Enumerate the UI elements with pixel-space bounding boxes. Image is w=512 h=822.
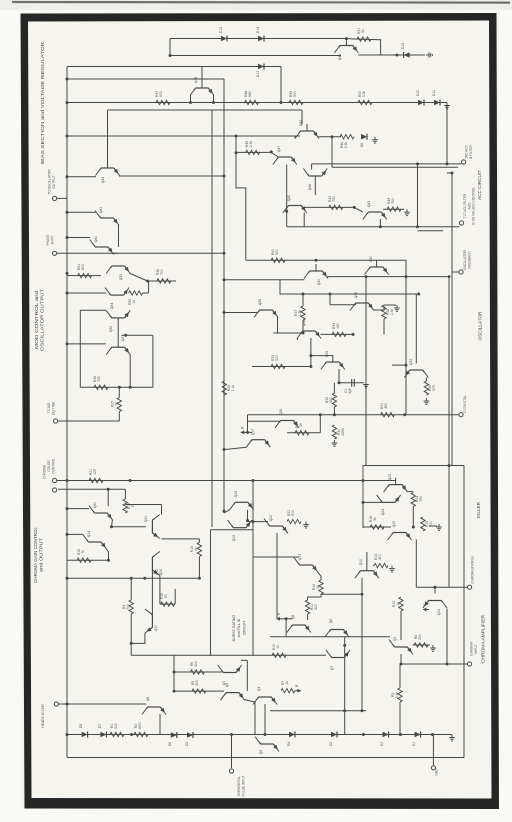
svg-text:1k: 1k bbox=[396, 602, 400, 606]
transistor Q12 bbox=[228, 520, 252, 541]
resistor R26 bbox=[93, 376, 108, 390]
wire Q21 collector up bbox=[161, 505, 163, 515]
svg-text:700: 700 bbox=[126, 604, 130, 610]
resistor R51 bbox=[357, 28, 371, 42]
wire x447 drop bbox=[446, 103, 448, 164]
wire R32 bottom bbox=[333, 407, 335, 415]
svg-text:Q28: Q28 bbox=[279, 409, 283, 416]
transistor Q33m bbox=[106, 266, 130, 280]
terminal HORIZONTAL PULSE bbox=[229, 769, 233, 773]
wire killer x363 lower bbox=[362, 502, 364, 528]
svg-text:5k: 5k bbox=[299, 423, 303, 427]
wire x253 drop bbox=[252, 481, 254, 558]
junction rail y237 bbox=[66, 236, 69, 239]
scan shading top bbox=[0, 0, 512, 10]
transistor Q8 bbox=[287, 615, 311, 633]
wire y55 right segment bbox=[358, 54, 425, 56]
transistor Q6b bbox=[142, 697, 166, 715]
ground below R39 bbox=[424, 398, 430, 404]
svg-text:3pF: 3pF bbox=[348, 388, 352, 394]
capacitor C1 bbox=[344, 379, 354, 394]
svg-text:D8: D8 bbox=[79, 724, 83, 728]
wire R5 line bbox=[174, 690, 224, 692]
wire Q4 down bbox=[264, 704, 266, 735]
wire x332 drop bbox=[331, 137, 333, 168]
svg-text:Q7: Q7 bbox=[330, 666, 334, 671]
wire x449 drop to killer box bbox=[448, 277, 450, 466]
junction x447 y163 bbox=[446, 162, 449, 165]
junction x236 bus136 bbox=[235, 135, 238, 138]
left label HEADS M CHR bbox=[41, 704, 45, 728]
wire Q50 emitters y276 bbox=[328, 276, 448, 278]
resistor R45 bbox=[245, 140, 260, 154]
junction rail y508 bbox=[66, 507, 69, 510]
resistor R6 bbox=[190, 661, 204, 674]
svg-text:D15: D15 bbox=[401, 43, 405, 49]
transistor Q46 bbox=[303, 169, 327, 191]
transistor Q37 bbox=[106, 335, 130, 355]
transistor Q33 bbox=[404, 359, 428, 378]
wire R11 to Q8 bbox=[307, 614, 309, 620]
resistor R22 bbox=[287, 510, 301, 524]
ground after C1 bbox=[363, 382, 369, 388]
svg-text:250: 250 bbox=[418, 634, 422, 640]
transistor Q30 bbox=[304, 264, 328, 285]
wire y636 to Q2 bbox=[270, 636, 390, 638]
transistor Q38c bbox=[297, 320, 321, 339]
svg-text:Q17: Q17 bbox=[298, 554, 302, 561]
wire Q17 to R16c bbox=[318, 573, 321, 581]
transistor Q24 bbox=[377, 495, 401, 515]
svg-text:450: 450 bbox=[384, 403, 388, 409]
ground killer bbox=[436, 524, 442, 530]
svg-text:300: 300 bbox=[314, 604, 318, 610]
svg-text:B FILTER: B FILTER bbox=[469, 144, 473, 158]
svg-text:B': B' bbox=[295, 684, 299, 687]
wire x247 down to Bprime bbox=[247, 415, 249, 433]
svg-text:MOD CONTROL and: MOD CONTROL and bbox=[34, 290, 39, 349]
wire R32 top bbox=[333, 383, 335, 393]
svg-text:CHROMA GAIN CONTROL: CHROMA GAIN CONTROL bbox=[33, 526, 38, 583]
diode D10 bbox=[416, 90, 424, 106]
svg-text:Q25: Q25 bbox=[388, 474, 392, 481]
wire phase shift bbox=[57, 252, 224, 254]
wire Q11 to Q10 link bbox=[151, 570, 153, 615]
svg-text:D10: D10 bbox=[416, 90, 420, 96]
wire Q13 base up bbox=[434, 587, 436, 593]
wire chroma bypass bbox=[416, 586, 467, 588]
junction x330 y294 bbox=[329, 293, 332, 296]
wire Q40 emitter bbox=[113, 252, 118, 254]
wire R12 to Q2 bbox=[400, 611, 402, 640]
svg-text:500: 500 bbox=[194, 661, 198, 667]
svg-text:725: 725 bbox=[97, 376, 101, 382]
svg-text:5k: 5k bbox=[194, 547, 198, 551]
junction x286 y211 bbox=[285, 210, 288, 213]
wire R16b line bbox=[160, 603, 175, 605]
wire Q10k emitter bbox=[361, 578, 363, 711]
ground after R13 bbox=[389, 566, 395, 572]
junction x449 y276 bbox=[448, 275, 451, 278]
svg-text:Q2: Q2 bbox=[393, 637, 397, 642]
terminal R7 arrow bbox=[295, 684, 301, 693]
svg-text:750: 750 bbox=[391, 198, 395, 204]
wire chroma gain terminal bbox=[58, 488, 126, 490]
transistor Q34 bbox=[105, 288, 129, 310]
wire Q10k base bbox=[366, 552, 368, 564]
resistor R30 bbox=[332, 425, 345, 439]
svg-text:5k: 5k bbox=[361, 29, 365, 33]
junction x236 y152 bbox=[235, 151, 238, 154]
terminal label GND bbox=[435, 768, 439, 776]
terminal TO OSCILLATOR OUTPUT bbox=[53, 196, 57, 200]
diode D4 bbox=[287, 732, 295, 747]
burst box top bbox=[211, 529, 254, 531]
junction x418 y294 bbox=[417, 293, 420, 296]
wire y275 from rail bbox=[67, 275, 101, 277]
svg-text:HEADS M CHR: HEADS M CHR bbox=[41, 704, 45, 728]
junction x362 y710 bbox=[361, 709, 364, 712]
wire x174 burst bbox=[173, 655, 175, 691]
wire R4 bottom bbox=[130, 614, 132, 655]
junction bus x231 bbox=[230, 733, 233, 736]
wire Q43 base elbow bbox=[354, 207, 363, 212]
junction y578 x144 bbox=[143, 577, 146, 580]
wire x148 up bbox=[148, 281, 150, 293]
junction y480 x130 bbox=[129, 479, 132, 482]
resistor R2 bbox=[134, 722, 148, 737]
svg-text:Q12: Q12 bbox=[232, 535, 236, 542]
wire Q14 emitter bbox=[106, 549, 108, 560]
wire y260 R41 line bbox=[246, 259, 316, 261]
diode D1 bbox=[412, 732, 421, 747]
junction C1 left bbox=[338, 381, 341, 384]
svg-text:Q49: Q49 bbox=[338, 54, 342, 61]
junction Q8 base bbox=[285, 617, 288, 620]
section title BURST GATING bbox=[232, 614, 246, 641]
wire R27 top bbox=[118, 387, 120, 397]
terminal PHASE SHIFT bbox=[53, 251, 57, 255]
junction Bprime bbox=[246, 431, 249, 434]
resistor R24 bbox=[411, 493, 423, 507]
resistor R15c bbox=[77, 549, 91, 563]
svg-text:1k: 1k bbox=[132, 300, 136, 304]
wire y526 to Q21 bbox=[112, 526, 146, 528]
svg-text:KILLER: KILLER bbox=[476, 502, 481, 518]
wire y594 R16c link bbox=[321, 593, 362, 595]
wire R43 line bbox=[302, 206, 354, 208]
wire x236 drop bbox=[235, 136, 237, 153]
junction y560 bbox=[107, 559, 110, 562]
wire Q36 Q37 link bbox=[117, 318, 119, 347]
wire y557 to Q17 bbox=[253, 556, 299, 558]
transistor Q41 bbox=[95, 207, 119, 226]
resistor R61 bbox=[77, 264, 92, 278]
wire R38 gnd stub bbox=[384, 304, 396, 306]
resistor R16c bbox=[312, 580, 323, 594]
wire x452 osc feedback drop bbox=[451, 173, 453, 466]
svg-text:Q3: Q3 bbox=[259, 750, 263, 755]
svg-text:Q46: Q46 bbox=[308, 184, 312, 191]
svg-text:D1: D1 bbox=[412, 742, 416, 746]
ground ACC bbox=[404, 209, 410, 215]
junction x447 y664 bbox=[446, 663, 449, 666]
svg-text:Q43: Q43 bbox=[367, 201, 371, 208]
wire osc feedback stub bbox=[452, 271, 459, 273]
wire Q44 base bbox=[107, 110, 109, 161]
svg-text:7k: 7k bbox=[115, 402, 119, 406]
svg-text:Q15: Q15 bbox=[234, 491, 238, 498]
transistor Q7 bbox=[326, 650, 350, 670]
terminal label CHROMA INPUT bbox=[470, 641, 478, 656]
wire x153 drop bbox=[152, 335, 154, 387]
diode D8a bbox=[360, 134, 367, 147]
wire burst collector bbox=[247, 510, 249, 521]
wire Q37 emitter drop bbox=[129, 354, 131, 387]
resistor R21 bbox=[89, 469, 103, 483]
wire x108 down bbox=[107, 489, 109, 506]
transistor Q50 bbox=[365, 256, 389, 275]
svg-text:1.1k: 1.1k bbox=[231, 384, 235, 391]
transistor Q21 bbox=[144, 515, 160, 539]
wire Q40 base bbox=[67, 237, 90, 239]
junction x417 y226 bbox=[416, 225, 419, 228]
junction y55 x397 bbox=[396, 54, 399, 57]
svg-text:GND: GND bbox=[435, 768, 439, 776]
junction x452 y173 bbox=[451, 172, 454, 175]
wire gnd terminal bbox=[432, 735, 434, 766]
wire osc out line y414 bbox=[248, 414, 460, 416]
wire Q10c emitter bbox=[131, 633, 145, 643]
wire R6 line bbox=[174, 671, 222, 673]
wire R51 line bbox=[346, 39, 380, 55]
junction Q17 rail bbox=[223, 448, 226, 451]
wire x281 down to bus102 bbox=[280, 67, 282, 103]
terminal label PHASE SHIFT bbox=[46, 235, 54, 246]
resistor R27 bbox=[111, 398, 122, 412]
wire x175 up bbox=[174, 589, 176, 604]
wire Q17 base bbox=[249, 431, 252, 433]
junction bus x131 bbox=[130, 733, 133, 736]
wire Q33m emitter diag bbox=[130, 274, 147, 282]
bottom ground bus bbox=[67, 734, 452, 736]
junction y414 x334 bbox=[333, 413, 336, 416]
wire Q41 base bbox=[67, 211, 96, 213]
svg-text:Q10: Q10 bbox=[359, 559, 363, 566]
svg-text:CHROMA BYPASS: CHROMA BYPASS bbox=[470, 556, 474, 583]
svg-text:2.4k: 2.4k bbox=[395, 691, 399, 698]
top bus y66 bbox=[67, 66, 281, 68]
wire Q35 emitter bbox=[277, 317, 279, 333]
transistor Q36 bbox=[106, 310, 130, 332]
resistor R7 bbox=[281, 681, 295, 693]
svg-text:D5: D5 bbox=[185, 742, 189, 746]
transistor Q2 bbox=[389, 637, 413, 655]
wire R27 bottom bbox=[118, 412, 120, 422]
diode D11 bbox=[432, 90, 440, 106]
wire osc output terminal bbox=[57, 197, 67, 199]
wire x320 up bbox=[319, 415, 321, 433]
junction y387 R27 bbox=[118, 386, 121, 389]
wire R15 line bbox=[67, 559, 109, 561]
svg-text:OSCILLATOR OUTPUT: OSCILLATOR OUTPUT bbox=[40, 288, 45, 351]
svg-text:D6: D6 bbox=[168, 742, 172, 746]
svg-text:Q24: Q24 bbox=[381, 509, 385, 516]
wire acc line y167 bbox=[332, 166, 458, 168]
terminal Bprime osc bbox=[241, 426, 247, 435]
wire AGI terminal bbox=[58, 420, 120, 422]
terminal label D CRYSTAL bbox=[463, 395, 467, 413]
svg-text:D13: D13 bbox=[219, 27, 223, 33]
resistor R13 bbox=[374, 554, 388, 568]
svg-text:1.5k: 1.5k bbox=[298, 309, 302, 316]
svg-text:5k: 5k bbox=[316, 585, 320, 589]
svg-text:EQ-TRBL: EQ-TRBL bbox=[51, 401, 55, 415]
svg-text:375: 375 bbox=[432, 385, 436, 391]
junction x366 y276 bbox=[365, 275, 368, 278]
terminal Bprime left bbox=[276, 612, 282, 621]
svg-text:B': B' bbox=[276, 612, 280, 615]
resistor R5 bbox=[191, 680, 206, 693]
wire R16c to R11 bbox=[308, 594, 321, 600]
svg-text:7k: 7k bbox=[81, 550, 85, 554]
diode D15 bbox=[401, 43, 410, 58]
junction y489 x108 bbox=[107, 488, 110, 491]
wire Q15 left leg to rail bbox=[224, 510, 230, 513]
svg-text:Q19: Q19 bbox=[392, 521, 396, 528]
terminal Bprime right bbox=[423, 603, 429, 612]
transistor Q2b bbox=[221, 683, 245, 700]
resistor R33 bbox=[271, 355, 285, 369]
resistor R39 bbox=[424, 381, 436, 395]
transistor Q42 bbox=[283, 195, 307, 213]
section title CHROMA GAIN CONTROL and OUTPUT bbox=[33, 526, 44, 583]
transistor Q43 bbox=[363, 201, 387, 220]
wire R37 top bbox=[302, 294, 304, 306]
wire x417 link bbox=[417, 164, 419, 227]
svg-text:FEEDBACK: FEEDBACK bbox=[467, 251, 471, 269]
wire R44 line bbox=[383, 208, 404, 210]
junction rail y578 bbox=[66, 577, 69, 580]
wire y173 stub bbox=[447, 172, 452, 174]
bus y110 bbox=[108, 109, 303, 111]
svg-text:Q33: Q33 bbox=[409, 359, 413, 366]
wire R8 line bbox=[413, 644, 431, 646]
svg-text:D3: D3 bbox=[329, 742, 333, 746]
svg-text:225k: 225k bbox=[341, 428, 345, 436]
wire Q46 left up bbox=[311, 164, 313, 170]
wire Q13 emitter down bbox=[446, 609, 448, 665]
wire Q36 emitter bbox=[374, 306, 385, 310]
wire horizontal pulse bbox=[231, 735, 233, 769]
wire killer base line y480 bbox=[57, 480, 396, 482]
wire Q25 to R24 bbox=[407, 491, 413, 493]
transistor Q47 bbox=[273, 146, 297, 165]
svg-text:OUTPUT: OUTPUT bbox=[52, 175, 56, 188]
svg-text:600: 600 bbox=[159, 91, 163, 97]
killer box bbox=[363, 466, 464, 529]
page top edge line bbox=[12, 1, 510, 4]
svg-text:180: 180 bbox=[336, 323, 340, 329]
transistor Q30c bbox=[89, 502, 113, 521]
ground below R30 bbox=[332, 440, 338, 446]
terminal CHROMA GAIN bbox=[53, 488, 57, 492]
transistor Q11 bbox=[152, 552, 163, 576]
svg-text:750: 750 bbox=[419, 496, 423, 502]
transistor Q36b bbox=[350, 292, 374, 311]
ground end of bus bbox=[449, 735, 455, 741]
svg-text:Q30: Q30 bbox=[93, 502, 97, 509]
junction rail y480 bbox=[66, 479, 69, 482]
junction y414 x320 bbox=[319, 413, 322, 416]
junction x417 y163 bbox=[416, 162, 419, 165]
svg-text:300: 300 bbox=[195, 680, 199, 686]
resistor R18k bbox=[369, 516, 384, 529]
transistor Q10c bbox=[145, 609, 158, 633]
resistor R47 bbox=[155, 91, 170, 105]
terminal label 2ND ACC B FILTER bbox=[465, 144, 473, 159]
svg-text:D4: D4 bbox=[287, 742, 291, 746]
svg-text:5k: 5k bbox=[373, 517, 377, 521]
diode D17 bbox=[256, 64, 264, 78]
wire Q48 left leg to bus bbox=[190, 95, 192, 103]
wire Q30 right leg down bbox=[327, 277, 329, 278]
wire Q2 down bbox=[400, 654, 402, 664]
terminal COLOR CONTROL bbox=[53, 478, 57, 482]
junction R33 right bbox=[309, 365, 312, 368]
wire y355 stub bbox=[311, 355, 333, 357]
svg-text:Q33: Q33 bbox=[119, 274, 123, 281]
wire Q28 base bbox=[248, 420, 281, 422]
wire Q24 base bbox=[363, 501, 382, 503]
wire y343 from rail bbox=[67, 343, 106, 345]
wire Q8 base bbox=[282, 618, 292, 620]
wire R38 bottom bbox=[383, 319, 385, 334]
svg-text:Q6: Q6 bbox=[146, 697, 150, 702]
svg-text:OSCILLATOR: OSCILLATOR bbox=[478, 312, 483, 341]
wire R16 top stub bbox=[198, 539, 200, 543]
svg-text:CHROMA AMPLIFIER: CHROMA AMPLIFIER bbox=[481, 615, 486, 663]
right content border wire bbox=[463, 466, 465, 758]
junction x131 y578 bbox=[130, 577, 133, 580]
terminal label HORIZONTAL PULSE INPUT bbox=[237, 775, 245, 796]
transistor Q40 bbox=[90, 236, 114, 255]
svg-text:CONTROL: CONTROL bbox=[51, 458, 55, 474]
wire y335 to x153 bbox=[122, 334, 153, 336]
transistor Q19 bbox=[388, 521, 412, 540]
transistor Q6 bbox=[325, 619, 349, 637]
wire Q38 left leg bbox=[297, 338, 299, 340]
junction y387 x130 bbox=[129, 386, 132, 389]
wire y230 stub bbox=[418, 230, 444, 232]
wire y365 stub bbox=[392, 364, 406, 366]
wire R16 top link bbox=[162, 538, 200, 540]
diode D14 bbox=[256, 27, 264, 42]
junction chroma bypass bbox=[434, 586, 437, 589]
wire x406 down bbox=[405, 260, 407, 414]
wire Q30c emitter bbox=[111, 520, 114, 527]
junction burst collector bbox=[246, 519, 249, 522]
wire long y655 bbox=[131, 654, 326, 656]
svg-text:Q14: Q14 bbox=[87, 531, 91, 538]
svg-text:750: 750 bbox=[332, 196, 336, 202]
junction y414 x404 bbox=[403, 413, 406, 416]
junction x281 y102 bbox=[280, 101, 283, 104]
transistor Q1b bbox=[218, 665, 242, 685]
svg-text:Q22: Q22 bbox=[269, 515, 273, 522]
resistor R55 bbox=[128, 291, 143, 305]
svg-text:500: 500 bbox=[275, 355, 279, 361]
